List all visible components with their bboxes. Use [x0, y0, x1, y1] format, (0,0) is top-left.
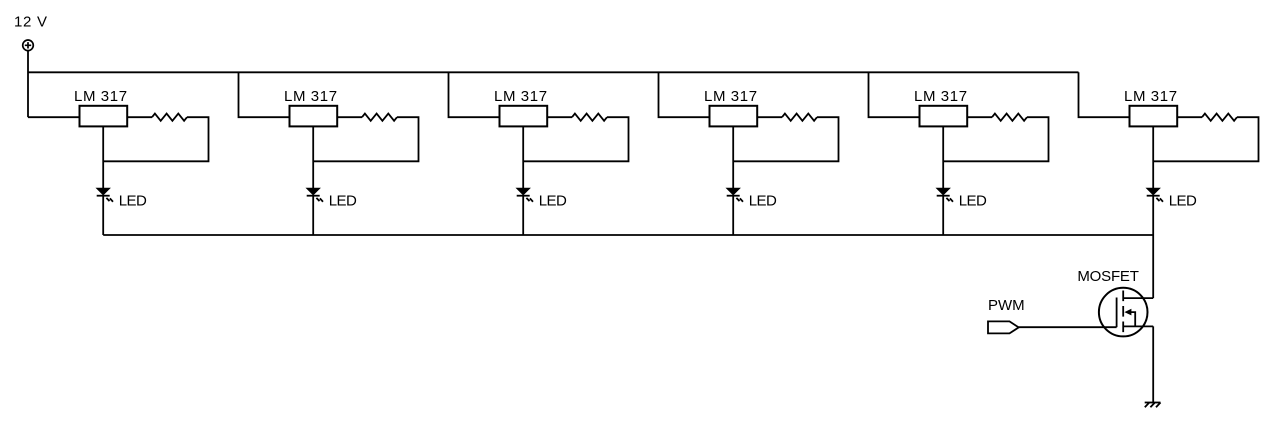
wire: drop from top supply bus to LM 317 #6 input	[1079, 72, 1130, 117]
svg-text:MOSFET: MOSFET	[1077, 268, 1138, 285]
MOSFET Q1 body circle	[1099, 288, 1148, 337]
wire: U3 output to resistor R3	[547, 116, 572, 118]
resistor R1 (current set)	[152, 114, 187, 121]
wire: drop from top supply bus to LM 317 #2 input	[239, 72, 290, 117]
svg-text:LM 317: LM 317	[284, 88, 338, 105]
wire: drop from top supply bus to LM 317 #5 input	[869, 72, 920, 117]
svg-text:LED: LED	[539, 193, 567, 210]
svg-text:LED: LED	[1169, 193, 1197, 210]
resistor R5 (current set)	[992, 114, 1027, 121]
wire: U2 output to resistor R2	[337, 116, 362, 118]
wire: U2 output pin down to LED D2 anode	[312, 126, 314, 188]
LED D3	[517, 188, 533, 201]
svg-text:LED: LED	[749, 193, 777, 210]
regulator U2 (LM 317)	[290, 106, 338, 127]
wire: U4 output pin down to LED D4 anode	[732, 126, 734, 188]
LED D5	[937, 188, 953, 201]
wire: MOSFET source to ground	[1152, 326, 1154, 402]
wire: U4 output to resistor R4	[757, 116, 782, 118]
wire: LED D2 cathode down to bottom bus	[312, 196, 314, 235]
wire: LED D1 cathode down to bottom bus	[102, 196, 104, 235]
wire: U6 output to resistor R6	[1177, 116, 1202, 118]
wire: U3 output pin down to LED D3 anode	[522, 126, 524, 188]
svg-text:PWM: PWM	[988, 297, 1025, 314]
svg-text:LED: LED	[959, 193, 987, 210]
wire: LED D3 cathode down to bottom bus	[522, 196, 524, 235]
wire: R5 to adjust pin feedback	[943, 117, 1048, 161]
wire: LED D4 cathode down to bottom bus	[732, 196, 734, 235]
wire: drop from top supply bus to LM 317 #3 input	[449, 72, 500, 117]
MOSFET gate electrode	[1116, 298, 1118, 328]
wire: U5 output to resistor R5	[967, 116, 992, 118]
wire: U5 output pin down to LED D5 anode	[942, 126, 944, 188]
wire: bottom bus to MOSFET drain	[1152, 235, 1154, 298]
svg-text:LM 317: LM 317	[704, 88, 758, 105]
MOSFET channel (dashed)	[1122, 291, 1124, 334]
MOSFET drain connection	[1123, 297, 1153, 299]
resistor R3 (current set)	[572, 114, 607, 121]
svg-text:LED: LED	[119, 193, 147, 210]
wire: R2 to adjust pin feedback	[313, 117, 418, 161]
svg-text:LM 317: LM 317	[74, 88, 128, 105]
wire: top supply bus	[28, 71, 1079, 73]
wire: R3 to adjust pin feedback	[523, 117, 628, 161]
resistor R6 (current set)	[1202, 114, 1237, 121]
wire: R1 to adjust pin feedback	[103, 117, 208, 161]
wire: R4 to adjust pin feedback	[733, 117, 838, 161]
wire: bottom return bus	[103, 234, 1153, 236]
wire: R6 to adjust pin feedback	[1153, 117, 1258, 161]
MOSFET body arrow	[1124, 309, 1135, 327]
regulator U5 (LM 317)	[920, 106, 968, 127]
svg-text:12 V: 12 V	[14, 13, 48, 30]
regulator U4 (LM 317)	[710, 106, 758, 127]
PWM input port flag	[988, 321, 1019, 333]
wire: drop from top supply bus to LM 317 #4 input	[659, 72, 710, 117]
svg-text:LED: LED	[329, 193, 357, 210]
regulator U1 (LM 317)	[80, 106, 128, 127]
wire: U1 output to resistor R1	[127, 116, 152, 118]
LED D1	[97, 188, 113, 201]
resistor R4 (current set)	[782, 114, 817, 121]
power symbol: +12 V source (circle with plus)	[23, 40, 34, 51]
svg-text:LM 317: LM 317	[494, 88, 548, 105]
LED D4	[727, 188, 743, 201]
resistor R2 (current set)	[362, 114, 397, 121]
regulator U6 (LM 317)	[1130, 106, 1178, 127]
LED D6	[1147, 188, 1163, 201]
regulator U3 (LM 317)	[500, 106, 548, 127]
wire: U1 output pin down to LED D1 anode	[102, 126, 104, 188]
wire: supply rail into LM 317 #1 input	[28, 116, 80, 118]
wire: PWM gate wire	[1019, 326, 1117, 328]
wire: LED D5 cathode down to bottom bus	[942, 196, 944, 235]
ground (chassis)	[1145, 403, 1161, 408]
wire: +12 V symbol down to input rail	[27, 51, 29, 118]
svg-text:LM 317: LM 317	[914, 88, 968, 105]
svg-text:LM 317: LM 317	[1124, 88, 1178, 105]
wire: U6 output pin down to LED D6 anode	[1152, 126, 1154, 188]
LED D2	[307, 188, 323, 201]
wire: LED D6 cathode down to bottom bus	[1152, 196, 1154, 235]
MOSFET source connection	[1123, 325, 1153, 327]
